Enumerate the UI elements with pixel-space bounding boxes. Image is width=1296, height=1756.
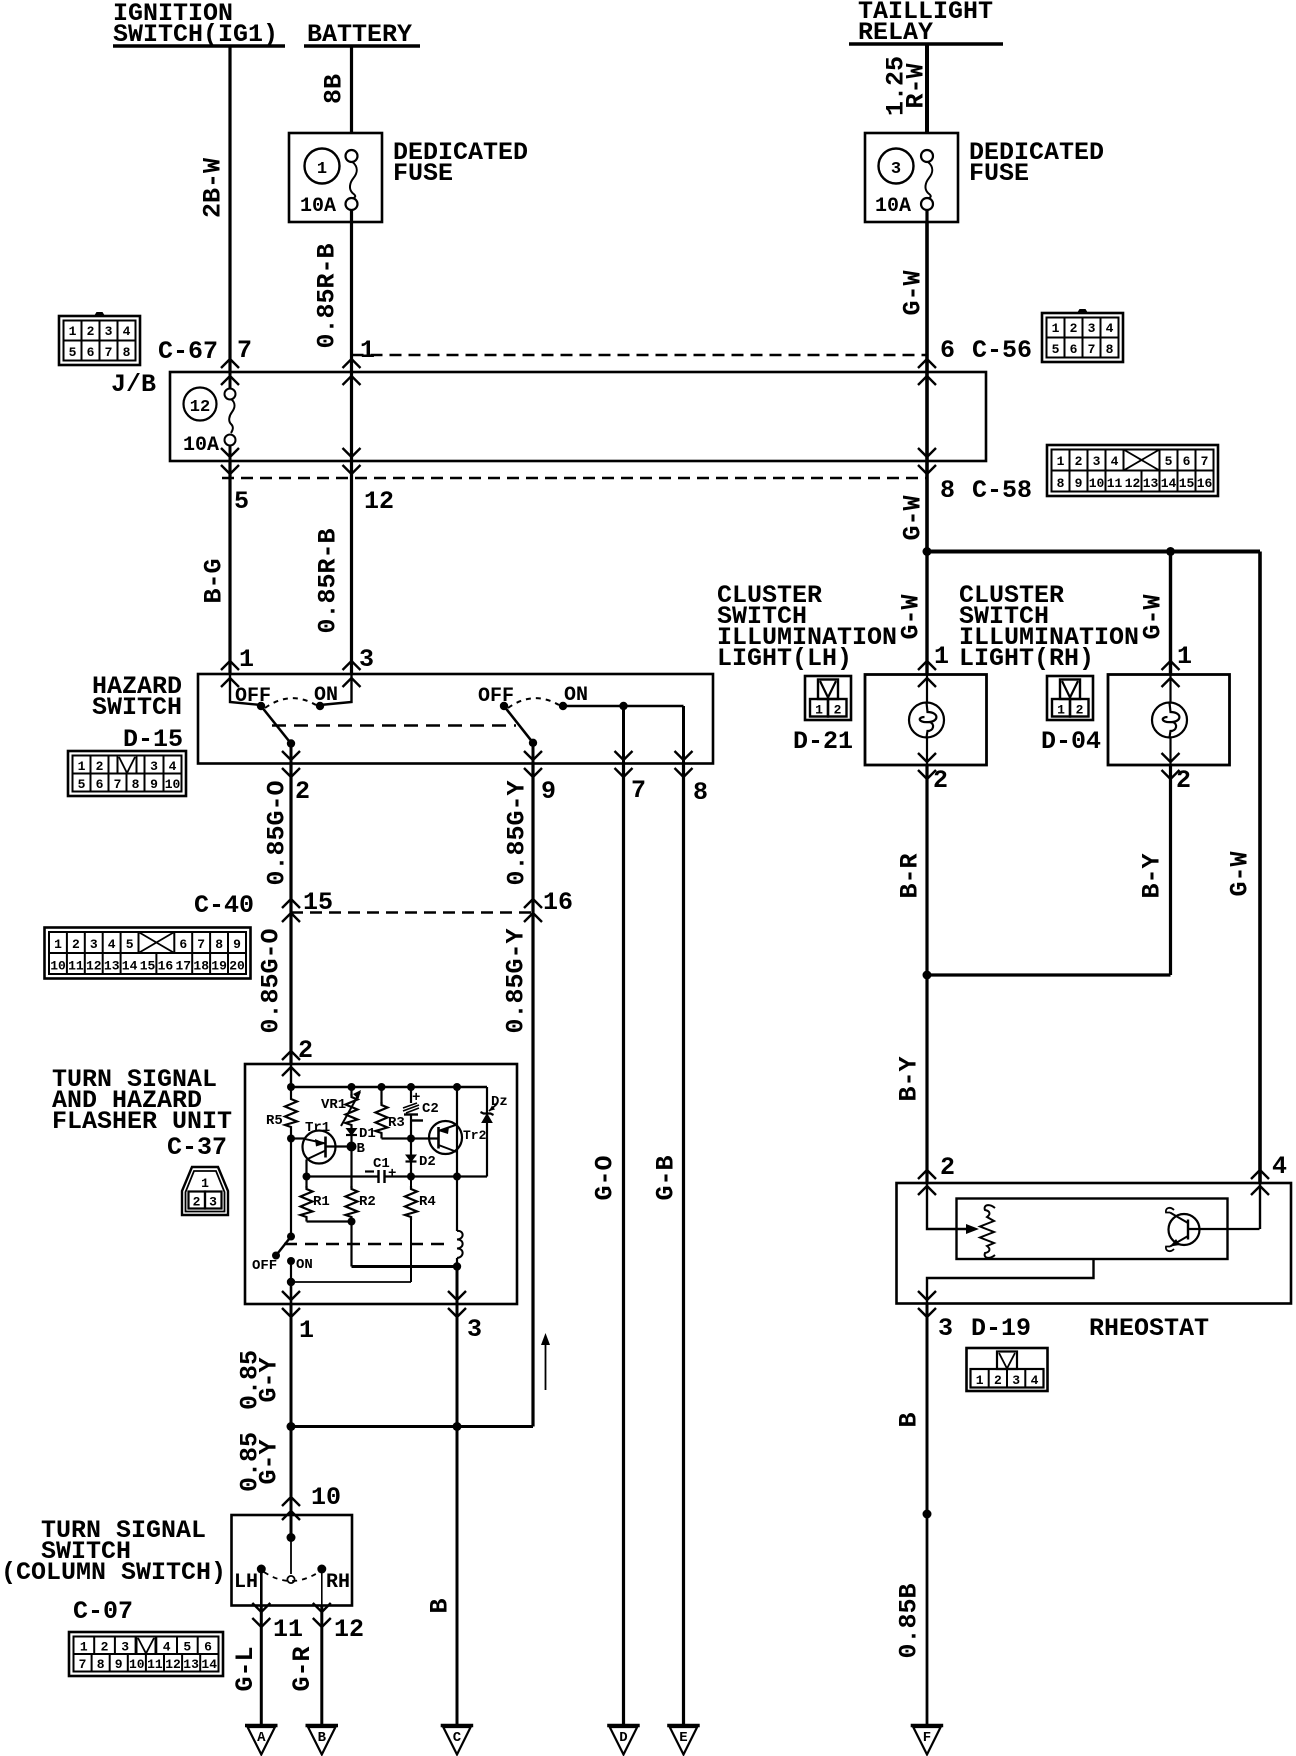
svg-text:R4: R4 — [419, 1194, 436, 1210]
svg-text:1: 1 — [976, 1373, 984, 1388]
wire battery 8B vertical — [350, 46, 353, 133]
svg-text:4: 4 — [163, 1640, 171, 1655]
svg-text:7: 7 — [237, 336, 252, 365]
wire G-W to LH light — [925, 552, 928, 675]
connector icon D-19 — [967, 1348, 1048, 1391]
svg-text:Tr2: Tr2 — [463, 1128, 487, 1143]
svg-text:2: 2 — [101, 1640, 109, 1655]
svg-text:10: 10 — [311, 1483, 341, 1512]
rheostat resistive element — [980, 1205, 995, 1258]
svg-text:FUSE: FUSE — [969, 159, 1029, 188]
svg-text:3: 3 — [1093, 454, 1101, 469]
wire G-W far right to rheostat pin 4 — [1258, 552, 1262, 1184]
joint arrow F — [911, 1726, 944, 1755]
svg-text:1: 1 — [360, 336, 375, 365]
svg-text:10: 10 — [165, 777, 181, 792]
relay coil (flasher) — [456, 1177, 458, 1232]
svg-text:4: 4 — [1272, 1152, 1287, 1181]
node BATTERY supply — [304, 20, 420, 49]
svg-text:0.85G-O: 0.85G-O — [257, 928, 286, 1033]
svg-text:3: 3 — [1012, 1373, 1020, 1388]
svg-text:2: 2 — [994, 1373, 1002, 1388]
wire branch (pin1 junction to G-Y column) — [291, 1425, 533, 1428]
svg-text:8: 8 — [215, 937, 223, 952]
svg-text:B-Y: B-Y — [895, 1056, 924, 1101]
svg-text:D-19: D-19 — [971, 1314, 1031, 1343]
svg-text:20: 20 — [229, 959, 245, 974]
svg-text:G-R: G-R — [288, 1646, 317, 1691]
svg-text:0.85R-B: 0.85R-B — [314, 528, 343, 633]
connector icon C-56 — [1042, 309, 1123, 362]
wire taillight 1.25R-W vertical — [925, 44, 929, 133]
wire taillight G-W below fuse — [925, 222, 929, 372]
switch blade — [276, 1237, 291, 1256]
turn signal switch box — [232, 1515, 353, 1606]
chevrons pin 12 exit — [313, 1603, 331, 1612]
connector icon D-21 — [805, 676, 851, 720]
flasher middle rail — [307, 1175, 379, 1177]
hazard switch box — [198, 674, 713, 764]
svg-text:14: 14 — [201, 1657, 217, 1672]
svg-text:R2: R2 — [359, 1194, 376, 1210]
svg-text:B-Y: B-Y — [1138, 853, 1167, 898]
svg-text:7: 7 — [79, 1657, 87, 1672]
contact dot ON — [316, 702, 324, 710]
svg-text:2: 2 — [940, 1153, 955, 1182]
svg-text:LIGHT(LH): LIGHT(LH) — [717, 644, 852, 673]
connector icon C-37 — [182, 1167, 228, 1215]
svg-text:D-21: D-21 — [793, 727, 853, 756]
svg-text:16: 16 — [158, 959, 174, 974]
svg-text:17: 17 — [175, 959, 191, 974]
wire RH contact to pin 12 — [321, 1569, 323, 1606]
joint arrow E — [667, 1726, 700, 1755]
wire G-L to joint A — [260, 1606, 263, 1727]
svg-text:3: 3 — [359, 645, 374, 674]
svg-text:+: + — [388, 1166, 396, 1182]
svg-text:0.85G-O: 0.85G-O — [263, 780, 292, 885]
wire 0.85G-O (pin2 to C-40 pin15) — [289, 764, 292, 913]
wire G-W (C-58 pin8 down to junction) — [925, 461, 929, 552]
svg-text:FUSE: FUSE — [393, 159, 453, 188]
svg-text:2: 2 — [1075, 454, 1083, 469]
svg-text:13: 13 — [104, 959, 120, 974]
wire pin2 into wiper arrow — [927, 1183, 968, 1229]
svg-text:B: B — [357, 1141, 366, 1157]
svg-text:9: 9 — [233, 937, 241, 952]
wire B-R (LH pin2 down) — [925, 765, 928, 975]
connector icon C-67 — [59, 312, 140, 365]
wire 0.85G-Y (C-40 pin16 down) — [531, 913, 534, 1427]
svg-text:G-Y: G-Y — [255, 1357, 284, 1402]
switch travel arc (dashed) — [265, 698, 316, 708]
svg-text:G-W: G-W — [897, 594, 926, 639]
label CLUSTER SWITCH ILLUMINATION LIGHT (RH) — [959, 581, 1139, 673]
svg-text:C-40: C-40 — [194, 891, 254, 920]
capacitor C1 — [377, 1170, 379, 1183]
switch travel arc (dashed) — [264, 1572, 319, 1581]
svg-text:12: 12 — [190, 398, 210, 417]
wire R2 to coil bottom — [352, 1265, 458, 1268]
chevrons RH light exit — [1162, 753, 1180, 762]
wire pin1 exit — [290, 1282, 293, 1304]
svg-text:B: B — [426, 1598, 455, 1613]
joint arrow A — [245, 1726, 278, 1755]
svg-text:11: 11 — [1107, 476, 1123, 491]
svg-text:R1: R1 — [313, 1194, 330, 1210]
svg-text:G-L: G-L — [231, 1646, 260, 1691]
svg-text:R3: R3 — [388, 1115, 405, 1131]
switch blade — [261, 706, 291, 744]
wire 0.85R-B (J/B pin12 to hazard pin3) — [350, 461, 353, 674]
svg-text:B: B — [318, 1730, 327, 1746]
chevrons C-40 pin15 — [282, 899, 300, 908]
wire common to pin 9 — [532, 743, 535, 764]
wire G-B (pin8 to joint E) — [682, 764, 685, 1727]
svg-text:2: 2 — [298, 1036, 313, 1065]
svg-text:3: 3 — [150, 759, 158, 774]
junction block J/B box — [170, 372, 986, 461]
connector line C-56 (dashed) — [352, 354, 928, 356]
svg-text:11: 11 — [68, 959, 84, 974]
svg-text:8: 8 — [1057, 476, 1065, 491]
junction dot G-W/LH — [923, 547, 932, 556]
svg-text:9: 9 — [1075, 476, 1083, 491]
svg-text:D1: D1 — [359, 1126, 376, 1142]
wire battery 0.85R-B below fuse — [350, 222, 353, 372]
svg-text:1: 1 — [317, 160, 327, 179]
svg-text:15: 15 — [140, 959, 156, 974]
svg-text:14: 14 — [122, 959, 138, 974]
svg-text:SWITCH: SWITCH — [92, 693, 182, 722]
svg-text:16: 16 — [1197, 476, 1213, 491]
chevrons hazard pin8 exit — [675, 751, 693, 760]
wire flasher pin1 down (0.85 G-Y) — [290, 1304, 293, 1515]
node TAILLIGHT RELAY supply — [849, 0, 1003, 47]
hazard switch pole 1 — [230, 674, 352, 764]
svg-text:15: 15 — [303, 888, 333, 917]
hazard switch pole 2 — [478, 684, 684, 764]
svg-text:1: 1 — [54, 937, 62, 952]
chevrons pin 11 exit — [252, 1603, 270, 1612]
node IGNITION SWITCH(IG1) supply — [113, 0, 285, 49]
resistor R2 — [350, 1147, 352, 1189]
wire common to pin 2 — [290, 744, 293, 764]
chevrons hazard pin7 exit — [615, 751, 633, 760]
connector icon C-07 (14 pin) — [69, 1632, 223, 1676]
svg-text:18: 18 — [193, 959, 209, 974]
svg-text:LIGHT(RH): LIGHT(RH) — [959, 644, 1094, 673]
wire R4 return to ON contact — [291, 1281, 411, 1283]
svg-text:0.85B: 0.85B — [895, 1583, 924, 1658]
junction dot splice — [923, 1510, 932, 1519]
svg-text:0.85G-Y: 0.85G-Y — [503, 780, 532, 885]
svg-text:7: 7 — [1201, 454, 1209, 469]
svg-text:8: 8 — [693, 778, 708, 807]
switch travel arc (dashed) — [508, 698, 559, 708]
wire coil junction to pin 3 — [456, 1267, 459, 1305]
svg-text:D2: D2 — [419, 1154, 436, 1170]
svg-text:6: 6 — [179, 937, 187, 952]
svg-text:16: 16 — [543, 888, 573, 917]
svg-text:LH: LH — [234, 1571, 258, 1594]
connector line C-40 (dashed) — [291, 911, 533, 913]
svg-text:D: D — [619, 1730, 627, 1746]
chevrons rheostat pin4 entry — [1251, 1170, 1269, 1179]
svg-text:2B-W: 2B-W — [199, 158, 228, 218]
svg-text:9: 9 — [150, 777, 158, 792]
junction dot at pin1 wire — [287, 1422, 296, 1431]
svg-text:2: 2 — [1176, 766, 1191, 795]
svg-text:B: B — [895, 1412, 924, 1427]
svg-text:D-15: D-15 — [123, 725, 183, 754]
junction dot at pin3 wire crossing — [453, 1422, 462, 1431]
svg-text:5: 5 — [234, 487, 249, 516]
wire 0.85B to joint F — [926, 1514, 929, 1726]
svg-text:10: 10 — [50, 959, 66, 974]
connector icon C-58 (16 pin) — [1047, 445, 1218, 496]
svg-text:8: 8 — [940, 476, 955, 505]
wire B-Y to rheostat pin 2 — [925, 975, 928, 1183]
svg-text:R-W: R-W — [902, 63, 931, 108]
svg-text:10A: 10A — [183, 434, 219, 457]
connector icon D-04 — [1047, 676, 1093, 720]
zener diode Dz — [486, 1087, 488, 1114]
svg-text:14: 14 — [1161, 476, 1177, 491]
wire ignition 2B-W vertical — [228, 46, 231, 372]
flasher unit box C-37 — [245, 1064, 517, 1304]
svg-text:3: 3 — [121, 1640, 129, 1655]
svg-text:G-Y: G-Y — [255, 1439, 284, 1484]
diode D1 — [347, 1129, 357, 1136]
svg-text:7: 7 — [197, 937, 205, 952]
label TURN SIGNAL AND HAZARD FLASHER UNIT — [52, 1065, 232, 1162]
variable resistor VR1 — [350, 1087, 352, 1096]
svg-text:OFF: OFF — [235, 685, 271, 708]
node B (Tr1 base) — [347, 1142, 357, 1152]
svg-text:11: 11 — [147, 1657, 163, 1672]
chevrons turn signal switch pin10 entry — [282, 1497, 300, 1506]
flow direction arrow — [545, 1341, 547, 1390]
svg-text:2: 2 — [933, 766, 948, 795]
wire ON contact down to pin1 junction — [290, 1261, 292, 1282]
chevrons C-67 pin 7 entry — [221, 359, 239, 368]
wire RH join to LH column — [927, 973, 1171, 976]
bulb LH — [926, 675, 928, 703]
svg-text:10: 10 — [1089, 476, 1105, 491]
wire pin4 into transistor — [1259, 1183, 1261, 1229]
contact dot RH — [317, 1565, 326, 1574]
resistor R5 — [290, 1087, 292, 1096]
chevrons flasher pin2 entry — [282, 1051, 300, 1060]
svg-text:8B: 8B — [320, 74, 349, 104]
svg-text:2: 2 — [193, 1195, 201, 1210]
svg-text:ON: ON — [564, 684, 588, 707]
svg-text:7: 7 — [631, 776, 646, 805]
transistor Tr2 — [411, 1121, 487, 1154]
svg-text:5: 5 — [183, 1640, 191, 1655]
chevrons rheostat pin3 exit — [918, 1291, 936, 1300]
chevrons rheostat pin2 entry — [918, 1170, 936, 1179]
svg-text:12: 12 — [364, 487, 394, 516]
wire LH contact to pin 11 — [260, 1569, 263, 1606]
svg-text:G-W: G-W — [1226, 851, 1255, 896]
svg-text:12: 12 — [165, 1657, 181, 1672]
svg-text:D-04: D-04 — [1041, 727, 1101, 756]
chevrons flasher pin1 exit — [282, 1291, 300, 1300]
wire 0.85G-Y (pin9 to C-40 pin16) — [531, 764, 534, 913]
junction dot G-W/RH — [1166, 547, 1175, 556]
svg-text:8: 8 — [97, 1657, 105, 1672]
svg-text:8: 8 — [132, 777, 140, 792]
wire G-O (pin7 to joint D) — [622, 764, 625, 1727]
svg-text:15: 15 — [1179, 476, 1195, 491]
fuse 12 inside J/B — [183, 372, 236, 461]
svg-text:RHEOSTAT: RHEOSTAT — [1089, 1314, 1209, 1343]
rheostat outer box — [897, 1183, 1292, 1304]
svg-text:1: 1 — [78, 759, 86, 774]
mechanical link (dashed) to coil — [284, 1243, 451, 1245]
svg-text:G-O: G-O — [591, 1155, 620, 1200]
svg-text:13: 13 — [183, 1657, 199, 1672]
svg-text:6: 6 — [1183, 454, 1191, 469]
svg-text:4: 4 — [108, 937, 116, 952]
svg-text:11: 11 — [273, 1615, 303, 1644]
wire G-W to RH light — [1169, 552, 1172, 675]
svg-text:5: 5 — [126, 937, 134, 952]
svg-text:B-R: B-R — [896, 853, 925, 898]
svg-text:ON: ON — [296, 1257, 313, 1273]
svg-text:A: A — [257, 1730, 266, 1746]
svg-text:5: 5 — [1165, 454, 1173, 469]
svg-text:2: 2 — [295, 777, 310, 806]
chevrons C-40 pin16 — [524, 899, 542, 908]
svg-text:C-56: C-56 — [972, 336, 1032, 365]
svg-text:G-W: G-W — [1139, 594, 1168, 639]
chevrons hazard pin1 entry — [221, 661, 239, 670]
resistor R4 — [410, 1177, 412, 1189]
wire stub pin3 to ON contact — [320, 674, 352, 705]
svg-text:G-B: G-B — [652, 1155, 681, 1200]
svg-text:FLASHER UNIT: FLASHER UNIT — [52, 1107, 232, 1136]
joint arrow D — [607, 1726, 640, 1755]
transistor Tr1 — [291, 1120, 352, 1177]
svg-text:5: 5 — [78, 777, 86, 792]
svg-text:7: 7 — [114, 777, 122, 792]
wire battery pass-through J/B — [350, 372, 353, 461]
chevrons LH light exit — [918, 753, 936, 762]
svg-text:2: 2 — [96, 759, 104, 774]
svg-text:C-07: C-07 — [73, 1597, 133, 1626]
svg-text:9: 9 — [115, 1657, 123, 1672]
svg-text:3: 3 — [90, 937, 98, 952]
svg-text:G-W: G-W — [899, 270, 928, 315]
svg-text:C: C — [453, 1730, 462, 1746]
chevrons J/B exits — [221, 448, 239, 457]
wire flasher pin3 down to joint C — [456, 1304, 459, 1726]
fuse box dedicated fuse 3 (taillight relay) — [865, 133, 958, 222]
wire G-W distribution bus (horizontal) — [927, 550, 1260, 554]
svg-text:10: 10 — [129, 1657, 145, 1672]
svg-text:0.85G-Y: 0.85G-Y — [502, 928, 531, 1033]
svg-text:R5: R5 — [266, 1113, 283, 1129]
svg-text:C-37: C-37 — [167, 1133, 227, 1162]
svg-text:3: 3 — [938, 1314, 953, 1343]
svg-text:J/B: J/B — [111, 370, 156, 399]
svg-text:1: 1 — [1177, 642, 1192, 671]
svg-text:12: 12 — [1125, 476, 1141, 491]
wire Tr2 collector-emitter column — [456, 1087, 458, 1177]
resistor R1 — [305, 1177, 307, 1189]
wire ON contact to pins 7 and 8 — [563, 705, 684, 708]
switch common feed — [290, 1515, 293, 1538]
svg-text:C2: C2 — [422, 1101, 439, 1117]
svg-text:10A: 10A — [875, 195, 911, 218]
svg-text:1: 1 — [239, 645, 254, 674]
svg-text:1: 1 — [80, 1640, 88, 1655]
svg-text:OFF: OFF — [478, 685, 514, 708]
svg-text:OFF: OFF — [252, 1258, 277, 1274]
rheostat inner box — [957, 1199, 1228, 1260]
chevrons C-56 pin 6 entry — [918, 359, 936, 368]
svg-text:4: 4 — [1031, 1373, 1039, 1388]
bulb RH — [1169, 675, 1171, 703]
svg-text:9: 9 — [541, 777, 556, 806]
svg-text:C-58: C-58 — [972, 476, 1032, 505]
svg-text:6: 6 — [940, 336, 955, 365]
svg-text:3: 3 — [891, 160, 901, 179]
connector icon D-15 (10 pin) — [68, 751, 186, 796]
chevrons hazard pin9 exit — [524, 751, 542, 760]
capacitor C2 (electrolytic) — [410, 1087, 412, 1103]
contact dot OFF — [500, 702, 508, 710]
connector icon C-40 (20 pin) — [45, 928, 251, 979]
svg-text:3: 3 — [467, 1315, 482, 1344]
contact dot OFF — [257, 702, 265, 710]
wire B (rheostat pin3 down) — [926, 1304, 929, 1515]
switch blade — [504, 706, 533, 743]
svg-text:13: 13 — [1143, 476, 1159, 491]
svg-text:(COLUMN SWITCH): (COLUMN SWITCH) — [1, 1558, 226, 1587]
svg-text:4: 4 — [169, 759, 177, 774]
chevrons hazard pin3 entry — [343, 661, 361, 670]
svg-text:C-67: C-67 — [158, 337, 218, 366]
wire B-Y (RH pin2 down) — [1169, 765, 1172, 975]
svg-text:12: 12 — [86, 959, 102, 974]
connector line C-58 (dashed) — [222, 477, 927, 479]
chevrons flasher pin3 exit — [448, 1291, 466, 1300]
diode D2 — [410, 1139, 412, 1156]
svg-text:12: 12 — [334, 1615, 364, 1644]
chevrons RH light entry — [1162, 661, 1180, 670]
fuse box dedicated fuse 1 (battery) — [289, 133, 382, 222]
svg-text:G-W: G-W — [899, 495, 928, 540]
flasher internal top bus — [290, 1064, 292, 1087]
lamp box cluster switch illumination light RH — [1108, 675, 1230, 766]
svg-text:1: 1 — [201, 1176, 209, 1191]
svg-text:1: 1 — [934, 642, 949, 671]
joint arrow B — [306, 1726, 339, 1755]
contact dot ON — [559, 702, 567, 710]
wire G-R to joint B — [320, 1606, 323, 1727]
svg-text:10A: 10A — [300, 195, 336, 218]
svg-text:2: 2 — [72, 937, 80, 952]
joint arrow C — [441, 1726, 474, 1755]
svg-text:Tr1: Tr1 — [305, 1120, 330, 1136]
wire stub pin1 to OFF contact — [230, 674, 261, 705]
label CLUSTER SWITCH ILLUMINATION LIGHT (LH) — [717, 581, 897, 673]
svg-text:1: 1 — [1057, 454, 1065, 469]
